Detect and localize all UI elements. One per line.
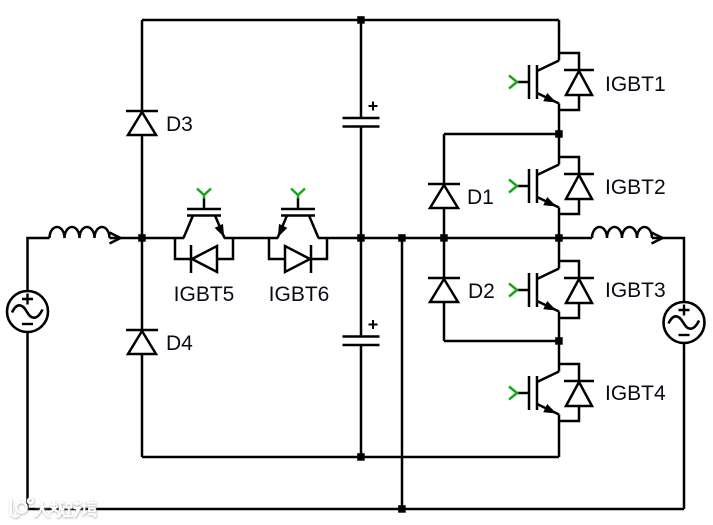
- wire IGBT6 to midpoint node: [318, 237, 559, 240]
- wire right source bottom lead: [683, 343, 686, 509]
- wire outer bottom rail: [28, 508, 685, 511]
- IGBT5 (horizontal, C left / E right): [175, 189, 233, 274]
- wire L1 to node with current arrow: [110, 237, 143, 240]
- node junction capacitor midpoint: [357, 234, 365, 242]
- label IGBT6: [269, 283, 330, 306]
- wire phase node to L2: [559, 237, 592, 240]
- svg-text:IGBT2: IGBT2: [605, 176, 666, 199]
- diode D4: [126, 330, 158, 354]
- svg-text:D3: D3: [166, 113, 193, 136]
- svg-text:IGBT6: IGBT6: [269, 283, 330, 306]
- wire neutral vertical: [401, 238, 404, 509]
- inductor L2: [592, 227, 652, 238]
- svg-text:IGBT3: IGBT3: [605, 279, 666, 302]
- node junction outer rail neutral: [398, 505, 406, 513]
- wire clamp top horizontal: [444, 133, 559, 136]
- IGBT6 (horizontal, E left / C right): [269, 189, 327, 274]
- label D4: [166, 332, 193, 355]
- wire left branch upper (to D3): [141, 20, 144, 111]
- diode D1: [428, 184, 460, 208]
- label IGBT1: [605, 73, 666, 96]
- wire input node to D4: [141, 238, 144, 330]
- label IGBT5: [174, 283, 235, 306]
- AC source V2: [664, 302, 705, 343]
- diode D3: [126, 111, 158, 135]
- wire left source top lead: [28, 238, 50, 291]
- arrow current direction L2: [652, 233, 663, 244]
- node junction IGBT3-IGBT4: [555, 337, 563, 345]
- IGBT U1: [509, 30, 594, 134]
- label IGBT2: [605, 176, 666, 199]
- wire midpoint to C2: [360, 238, 363, 337]
- diode D2: [428, 278, 460, 302]
- wire top rail: [142, 19, 559, 22]
- wire D2 to clamp bottom: [443, 302, 446, 341]
- wire IGBT5 to IGBT6: [224, 237, 278, 240]
- wire node to IGBT5: [142, 237, 184, 240]
- capacitor C2: [343, 320, 380, 345]
- label IGBT4: [605, 382, 666, 405]
- wire D3 to input node: [141, 135, 144, 238]
- wire D1 to clamp midpoint: [443, 208, 446, 238]
- wire inner bottom rail: [142, 456, 559, 459]
- wire clamp top to D1: [443, 134, 446, 184]
- AC source V1: [7, 291, 48, 332]
- svg-text:IGBT1: IGBT1: [605, 73, 666, 96]
- wire clamp bottom horizontal: [444, 340, 559, 343]
- node junction IGBT1-IGBT2: [555, 130, 563, 138]
- node junction phase output: [555, 234, 563, 242]
- svg-text:IGBT4: IGBT4: [605, 382, 666, 405]
- svg-text:IGBT5: IGBT5: [174, 283, 235, 306]
- label D3: [166, 113, 193, 136]
- svg-text:D1: D1: [467, 186, 494, 209]
- node junction inner rail C2: [357, 453, 365, 461]
- node junction clamp midpoint: [440, 234, 448, 242]
- IGBT U2: [509, 134, 594, 238]
- IGBT U3: [509, 238, 594, 342]
- node junction dc-link top: [357, 16, 365, 24]
- svg-text:D4: D4: [166, 332, 193, 355]
- watermark logo: [0, 490, 120, 525]
- wire left source bottom lead: [26, 332, 29, 509]
- arrow current direction L1: [110, 233, 121, 244]
- wire C1 to midpoint: [360, 127, 363, 239]
- wire clamp midpoint to D2: [443, 238, 446, 278]
- wire IGBT4 emitter to inner rail: [558, 445, 561, 457]
- label IGBT3: [605, 279, 666, 302]
- wire L2 to right source with arrow: [652, 238, 684, 302]
- label D2: [468, 280, 495, 303]
- wire D4 to inner bottom rail: [141, 354, 144, 457]
- svg-text:D2: D2: [468, 280, 495, 303]
- label D1: [467, 186, 494, 209]
- node junction neutral tap: [398, 234, 406, 242]
- inductor L1: [50, 227, 110, 238]
- capacitor C1: [343, 102, 380, 127]
- node junction input left: [138, 234, 146, 242]
- wire C2 to inner bottom rail: [360, 345, 363, 457]
- wire top rail to IGBT1: [558, 20, 561, 31]
- wire dc-link top to C1: [360, 20, 363, 118]
- IGBT U4: [509, 341, 594, 445]
